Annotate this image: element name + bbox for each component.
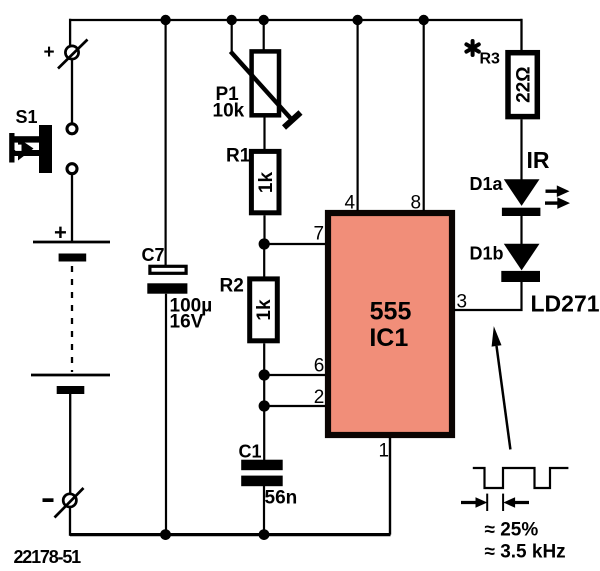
D1a emission arrows <box>545 185 570 209</box>
wire - terminal to bottom rail <box>69 507 71 536</box>
waveform duty arrows <box>461 497 529 508</box>
svg-text:R2: R2 <box>220 276 244 297</box>
wire bottom ground rail <box>70 533 391 536</box>
wire R1 to node 7 <box>263 215 265 244</box>
svg-text:22Ω: 22Ω <box>514 67 535 103</box>
svg-text:1: 1 <box>379 441 390 462</box>
node bottom rail / C7 <box>160 529 171 540</box>
wire pin 7 <box>264 243 328 245</box>
svg-text:IC1: IC1 <box>369 324 408 352</box>
svg-text:D1a: D1a <box>470 174 504 194</box>
svg-text:LD271: LD271 <box>531 291 600 317</box>
LED D1b <box>470 244 541 283</box>
wire pin 2 <box>264 405 328 407</box>
wire switch to battery <box>71 175 73 243</box>
svg-text:16V: 16V <box>170 312 204 333</box>
wire P1 to R1 <box>263 118 265 151</box>
wire node2 to C1 <box>263 406 265 461</box>
svg-text:2: 2 <box>314 387 325 408</box>
wire left drop to + terminal <box>69 19 71 46</box>
wire C7 bottom <box>165 294 167 535</box>
potentiometer P1 <box>213 20 301 128</box>
waveform square wave <box>473 468 569 488</box>
node top rail / pin8 <box>419 15 429 25</box>
wire top supply rail <box>69 19 522 21</box>
svg-text:D1b: D1b <box>470 244 504 264</box>
wire battery to - terminal <box>69 394 71 494</box>
wire node6 to node2 <box>263 375 265 406</box>
resistor R2 <box>220 276 278 341</box>
wire pin 4 <box>357 20 359 211</box>
wire pin 1 <box>389 437 391 535</box>
svg-text:1k: 1k <box>254 299 275 321</box>
svg-text:C1: C1 <box>239 442 262 462</box>
S1 upper contact <box>67 124 77 134</box>
capacitor C1 <box>239 442 298 509</box>
capacitor C7 <box>142 245 213 333</box>
wire R3 to D1a <box>520 119 522 180</box>
svg-text:3: 3 <box>457 292 468 313</box>
wire + terminal to switch <box>71 60 73 125</box>
node pin7 junction <box>259 238 270 249</box>
node bottom rail / C1 <box>259 529 270 540</box>
svg-text:6: 6 <box>314 356 325 377</box>
wire top rail to R3 <box>520 19 522 52</box>
node top rail / pin4 <box>352 15 362 25</box>
node pin2 junction <box>259 400 270 411</box>
svg-text:1k: 1k <box>256 172 277 194</box>
svg-text:10k: 10k <box>213 101 245 122</box>
LED D1a <box>470 174 541 216</box>
node pin6 junction <box>259 369 270 380</box>
S1 lower contact <box>67 164 77 174</box>
svg-text:4: 4 <box>345 193 356 214</box>
svg-text:22178-51: 22178-51 <box>14 547 82 567</box>
op IC1 555 body <box>328 213 452 435</box>
node top rail / P1 wiper <box>227 15 237 25</box>
svg-text:IR: IR <box>527 147 550 173</box>
node top rail / P1 top <box>259 15 269 25</box>
svg-text:≈ 25%: ≈ 25% <box>485 520 539 541</box>
svg-text:R1: R1 <box>226 146 251 167</box>
svg-text:R3: R3 <box>480 51 501 68</box>
wire pin 6 <box>264 374 328 376</box>
resistor R3 <box>480 51 538 117</box>
wire C1 to bottom rail <box>263 486 265 535</box>
wire D1a to D1b <box>520 216 522 245</box>
wire C7 top <box>165 20 167 266</box>
wire R2 to node 6 <box>263 343 265 375</box>
wire pin 8 <box>423 20 425 211</box>
svg-text:S1: S1 <box>16 107 38 127</box>
wire pin 3 <box>454 281 522 310</box>
wire node to R2 <box>263 244 265 278</box>
svg-text:C7: C7 <box>142 245 165 265</box>
pushbutton S1 <box>9 125 52 173</box>
terminal + (battery clip) <box>44 40 88 69</box>
resistor R1 <box>226 146 279 213</box>
waveform duty ticks <box>487 494 503 511</box>
svg-text:+: + <box>44 42 55 63</box>
svg-text:7: 7 <box>314 224 325 245</box>
svg-text:555: 555 <box>370 298 412 326</box>
svg-text:56n: 56n <box>265 488 298 509</box>
battery BT1 <box>31 220 110 394</box>
asterisk note mark <box>466 41 478 55</box>
svg-text:8: 8 <box>411 193 422 214</box>
node top rail / C7 <box>160 15 170 25</box>
svg-text:≈ 3.5 kHz: ≈ 3.5 kHz <box>485 542 566 563</box>
terminal - (battery clip) <box>43 488 84 518</box>
annotation arrow to pin3 <box>492 326 511 449</box>
